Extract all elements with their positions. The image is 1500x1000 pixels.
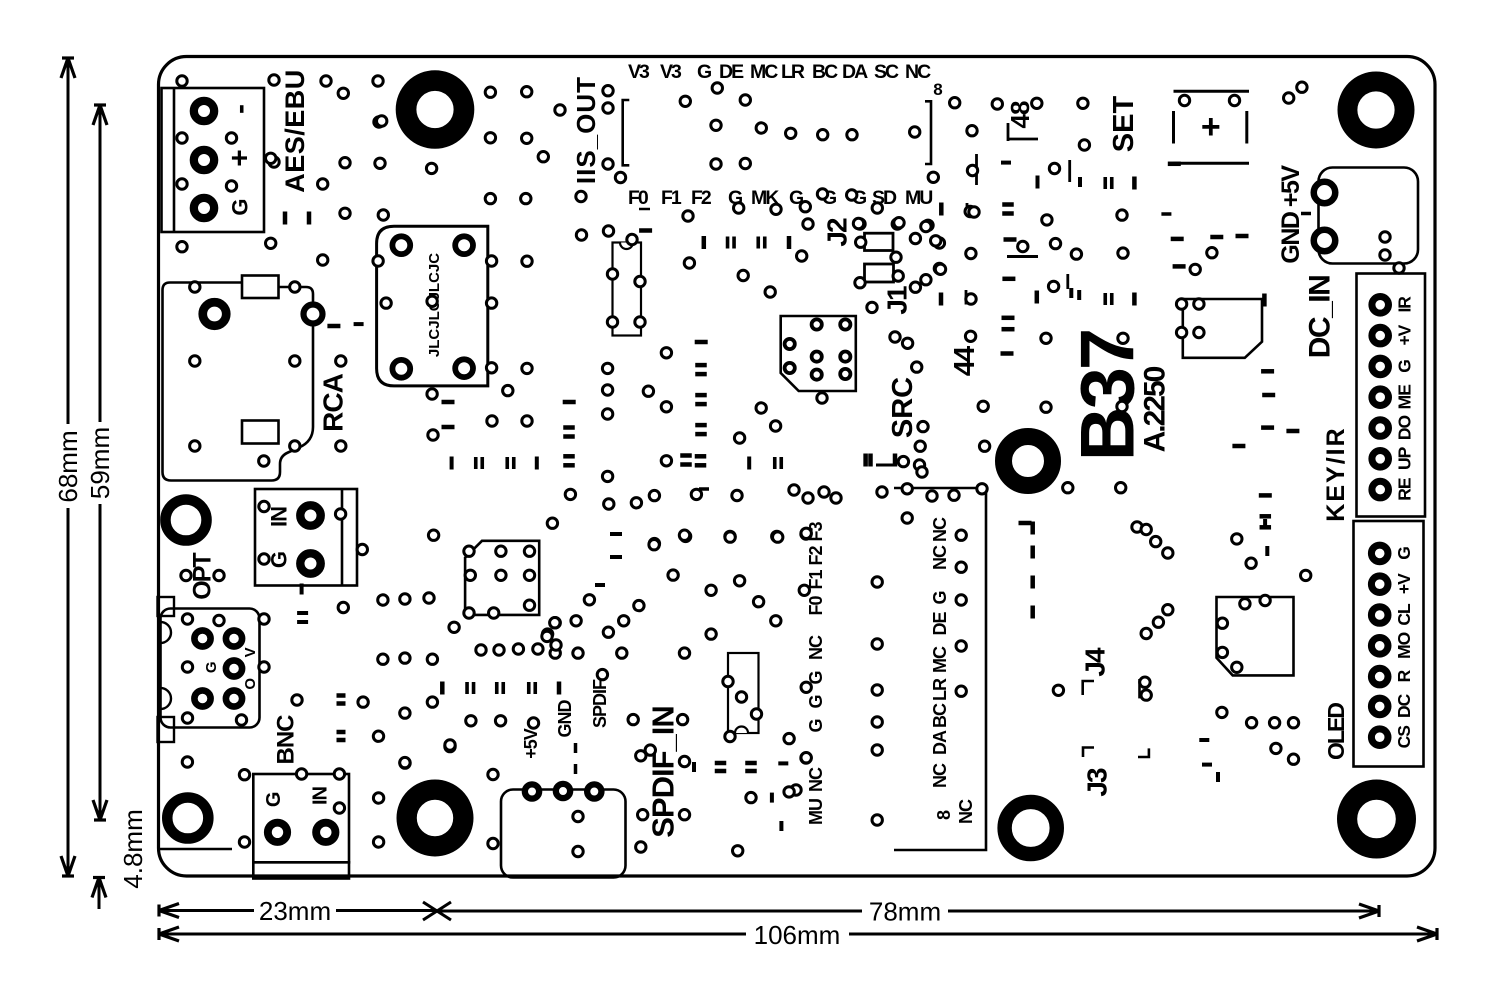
svg-text:G: G <box>930 591 950 604</box>
svg-text:F1: F1 <box>661 187 682 209</box>
svg-text:DE: DE <box>719 61 744 83</box>
svg-text:G: G <box>228 198 253 215</box>
svg-text:IN: IN <box>267 507 292 527</box>
svg-text:DA: DA <box>930 730 950 755</box>
svg-text:LR: LR <box>930 678 950 701</box>
svg-text:GND +5V: GND +5V <box>1277 165 1305 264</box>
svg-text:CS: CS <box>1394 726 1414 749</box>
svg-text:23mm: 23mm <box>259 896 331 926</box>
svg-text:SET: SET <box>1108 96 1140 153</box>
svg-text:J4: J4 <box>1080 647 1111 677</box>
svg-text:BC: BC <box>812 61 838 83</box>
svg-text:NC: NC <box>930 763 950 788</box>
svg-text:NC: NC <box>956 799 976 824</box>
svg-text:+: + <box>1201 108 1221 146</box>
svg-text:SPDIF_IN: SPDIF_IN <box>646 706 681 838</box>
svg-text:44: 44 <box>949 346 981 376</box>
svg-text:V: V <box>242 647 259 657</box>
svg-text:59mm: 59mm <box>85 427 115 499</box>
svg-text:DC: DC <box>1394 693 1414 718</box>
svg-text:J3: J3 <box>1082 768 1113 797</box>
svg-text:DC_IN: DC_IN <box>1304 276 1337 359</box>
svg-text:G: G <box>263 792 285 808</box>
svg-text:MC: MC <box>930 646 950 673</box>
svg-text:MO: MO <box>1394 632 1414 659</box>
svg-text:R: R <box>1394 669 1414 682</box>
svg-text:68mm: 68mm <box>53 430 83 502</box>
svg-text:+: + <box>224 149 257 167</box>
svg-text:8: 8 <box>933 80 942 99</box>
svg-text:G: G <box>1394 547 1414 560</box>
svg-text:SRC: SRC <box>887 377 919 438</box>
svg-text:F0: F0 <box>628 187 649 209</box>
svg-text:CL: CL <box>1394 603 1414 626</box>
svg-text:NC: NC <box>930 517 950 542</box>
svg-text:-: - <box>224 104 257 114</box>
svg-text:+5V: +5V <box>521 728 541 759</box>
svg-text:ME: ME <box>1395 385 1415 410</box>
svg-text:KEY/IR: KEY/IR <box>1322 426 1350 521</box>
svg-text:A.2250: A.2250 <box>1139 366 1172 452</box>
svg-text:4.8mm: 4.8mm <box>118 809 148 888</box>
svg-text:V3: V3 <box>628 61 650 83</box>
svg-text:J2: J2 <box>822 218 853 247</box>
svg-text:MU: MU <box>905 187 932 209</box>
svg-text:SPDIF: SPDIF <box>590 679 610 728</box>
svg-text:GND: GND <box>555 700 575 738</box>
svg-text:OLED: OLED <box>1323 703 1349 760</box>
svg-text:OPT: OPT <box>189 553 217 600</box>
svg-text:SC: SC <box>874 61 899 83</box>
svg-text:8: 8 <box>934 810 954 820</box>
svg-text:+V: +V <box>1395 324 1415 345</box>
svg-text:G: G <box>203 661 220 673</box>
svg-text:DE: DE <box>930 612 950 636</box>
svg-text:IN: IN <box>309 786 331 805</box>
svg-text:AES/EBU: AES/EBU <box>280 69 310 193</box>
svg-text:MC: MC <box>750 61 778 83</box>
svg-text:RCA: RCA <box>317 373 348 431</box>
svg-text:G: G <box>806 719 826 732</box>
svg-text:BC: BC <box>930 703 950 728</box>
svg-text:F2: F2 <box>691 187 712 209</box>
svg-text:NC: NC <box>806 767 826 792</box>
svg-text:G: G <box>697 61 711 83</box>
svg-text:V3: V3 <box>660 61 682 83</box>
svg-text:LR: LR <box>781 61 805 83</box>
svg-text:F0: F0 <box>806 596 826 616</box>
svg-text:MU: MU <box>806 799 826 825</box>
svg-text:RE: RE <box>1395 478 1415 501</box>
svg-text:IR: IR <box>1395 296 1415 313</box>
svg-text:G: G <box>1395 360 1415 373</box>
svg-text:106mm: 106mm <box>754 920 841 950</box>
svg-text:NC: NC <box>806 635 826 660</box>
svg-text:J1: J1 <box>882 286 913 315</box>
svg-text:78mm: 78mm <box>869 897 941 927</box>
svg-text:IIS_OUT: IIS_OUT <box>571 76 601 184</box>
svg-text:O: O <box>242 678 259 690</box>
svg-text:BNC: BNC <box>273 715 300 765</box>
svg-text:G: G <box>806 695 826 708</box>
svg-text:F2: F2 <box>806 546 826 566</box>
svg-text:DA: DA <box>842 61 868 83</box>
svg-text:UP: UP <box>1395 446 1415 470</box>
svg-text:+V: +V <box>1394 573 1414 594</box>
svg-text:NC: NC <box>905 61 931 83</box>
svg-text:DO: DO <box>1395 415 1415 440</box>
svg-text:NC: NC <box>930 545 950 570</box>
